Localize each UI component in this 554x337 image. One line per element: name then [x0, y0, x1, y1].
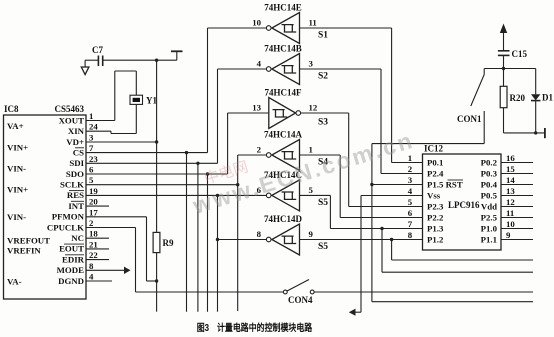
svg-text:VIN+: VIN+	[7, 142, 28, 152]
svg-text:VIN+: VIN+	[7, 184, 28, 194]
wire riser bottom to right	[372, 301, 533, 303]
junction SDO tap	[206, 172, 209, 175]
capacitor C7	[85, 59, 98, 61]
wire SDI pin23	[86, 162, 218, 164]
wire gate D output	[218, 239, 268, 241]
svg-text:74HC14D: 74HC14D	[264, 214, 303, 224]
svg-text:23: 23	[89, 154, 98, 164]
svg-text:10: 10	[506, 219, 515, 229]
svg-text:14: 14	[506, 175, 515, 185]
svg-text:4: 4	[89, 272, 94, 282]
svg-text:XIN: XIN	[68, 126, 85, 136]
svg-text:P2.5: P2.5	[481, 213, 498, 223]
svg-text:P1.2: P1.2	[427, 235, 444, 245]
svg-text:3: 3	[408, 175, 413, 185]
svg-text:19: 19	[89, 186, 98, 196]
IC IC12 LPC916 body	[423, 154, 502, 250]
svg-text:P1.5 RST: P1.5 RST	[427, 180, 463, 190]
svg-text:Vdd: Vdd	[481, 202, 497, 212]
svg-text:10: 10	[252, 18, 261, 28]
svg-text:74HC14B: 74HC14B	[264, 44, 302, 54]
svg-text:P0.3: P0.3	[481, 169, 498, 179]
wire S2 from IC12 P2.4	[300, 68, 382, 70]
svg-text:S1: S1	[318, 31, 328, 41]
svg-text:2: 2	[257, 145, 262, 155]
IC12 right pin stubs	[501, 162, 533, 164]
svg-text:9: 9	[309, 229, 314, 239]
wire gate A output riser	[237, 155, 239, 311]
wire top-right rail	[484, 68, 536, 70]
svg-text:D1: D1	[542, 93, 553, 103]
svg-text:8: 8	[408, 230, 413, 240]
wire SDO down-tap	[207, 174, 209, 312]
wire gate F input	[228, 112, 269, 114]
wire gate E output riser to CS	[207, 28, 209, 153]
svg-text:P0.5: P0.5	[481, 191, 498, 201]
wire SDI down-tap	[197, 163, 199, 311]
wire gate B output riser to SDI	[217, 69, 219, 163]
svg-text:Y1: Y1	[146, 96, 157, 106]
wire S5 from IC12 P1.3	[300, 194, 331, 196]
svg-text:CS5463: CS5463	[54, 104, 84, 114]
wire S4 from IC12 P2.2	[300, 154, 341, 156]
switch CON4	[283, 290, 287, 294]
junction RES / S5 down-tap	[216, 194, 219, 197]
wire RES pin19 to gate C output	[86, 194, 267, 196]
svg-text:74HC14E: 74HC14E	[264, 3, 302, 13]
svg-text:7: 7	[408, 219, 413, 229]
svg-text:15: 15	[506, 164, 515, 174]
svg-text:P2.2: P2.2	[427, 213, 444, 223]
svg-text:INT: INT	[68, 201, 84, 211]
wire SDO pin6	[86, 173, 228, 175]
junction CS tap	[185, 151, 188, 154]
svg-text:17: 17	[89, 207, 98, 217]
svg-text:5: 5	[408, 197, 413, 207]
wire RST to IC12 pin3	[372, 184, 423, 186]
svg-text:C7: C7	[92, 45, 103, 55]
svg-text:74HC14A: 74HC14A	[264, 130, 303, 140]
wire XIN pin24	[86, 130, 111, 132]
wire NC pin18 stub	[86, 237, 109, 239]
svg-text:CS: CS	[73, 147, 84, 157]
svg-text:12: 12	[506, 197, 515, 207]
svg-text:R9: R9	[163, 238, 174, 248]
svg-text:P2.3: P2.3	[427, 202, 444, 212]
svg-text:CON4: CON4	[288, 295, 313, 305]
wire CS pin7	[86, 152, 208, 154]
svg-text:VREFIN: VREFIN	[7, 245, 41, 255]
svg-text:P0.1: P0.1	[427, 158, 443, 168]
svg-text:CON1: CON1	[457, 114, 482, 124]
svg-text:S3: S3	[318, 118, 328, 128]
svg-text:VD+: VD+	[66, 137, 84, 147]
supply tap bar	[176, 51, 178, 60]
junction R9 bottom / PFMON	[155, 279, 158, 282]
wire crystal top	[115, 70, 137, 72]
svg-text:4: 4	[408, 186, 413, 196]
svg-text:3: 3	[89, 133, 94, 143]
wire CON4 line right	[314, 291, 533, 293]
svg-text:S5: S5	[318, 198, 328, 208]
IC IC8 CS5463 body	[4, 115, 87, 299]
svg-text:CPUCLK: CPUCLK	[47, 222, 84, 232]
wire VD+ pin3	[86, 141, 157, 143]
wire crystal right vertical	[135, 71, 137, 95]
svg-text:DGND: DGND	[58, 276, 84, 286]
wire gate E output	[208, 27, 268, 29]
terminal bar	[544, 128, 546, 138]
wire gate F input riser to SDO	[227, 113, 229, 174]
wire C15 to rail	[503, 55, 505, 86]
svg-text:SCLK: SCLK	[60, 180, 84, 190]
wire gate A output	[238, 154, 267, 156]
svg-text:7: 7	[89, 143, 94, 153]
wire SCLK pin5	[86, 184, 238, 186]
svg-text:SDO: SDO	[66, 169, 84, 179]
svg-text:VA-: VA-	[7, 276, 22, 286]
svg-text:16: 16	[506, 153, 515, 163]
junction VD+ / R9 rail	[155, 140, 158, 143]
wire below R9	[156, 253, 158, 312]
svg-text:VREFOUT: VREFOUT	[7, 235, 50, 245]
svg-text:20: 20	[89, 197, 98, 207]
svg-text:11: 11	[309, 18, 317, 28]
wire CON1 riser	[371, 144, 373, 302]
junction RST	[370, 183, 373, 186]
switch CON1	[483, 69, 485, 75]
wire P1.2 branch down-right	[391, 240, 393, 261]
svg-text:MODE: MODE	[57, 265, 84, 275]
svg-text:2: 2	[89, 218, 94, 228]
svg-text:4: 4	[257, 59, 262, 69]
capacitor C15	[498, 50, 510, 52]
wire EOUT pin21 stub	[86, 248, 109, 250]
svg-text:21: 21	[89, 239, 98, 249]
svg-text:1: 1	[408, 153, 412, 163]
svg-text:P0.4: P0.4	[481, 180, 498, 190]
diode D1	[535, 69, 537, 95]
svg-text:S5: S5	[318, 242, 328, 252]
svg-text:13: 13	[506, 186, 515, 196]
wire P1.3 branch down-right	[381, 229, 383, 273]
svg-text:EOUT: EOUT	[59, 244, 84, 254]
svg-text:IC8: IC8	[4, 104, 19, 114]
svg-text:XOUT: XOUT	[59, 115, 85, 125]
svg-text:VA+: VA+	[7, 121, 24, 131]
svg-text:1: 1	[309, 145, 313, 155]
wire INT pin20 stub	[86, 205, 109, 207]
inverter 74HC14F	[269, 98, 296, 129]
inverter 74HC14B	[272, 54, 300, 85]
svg-text:3: 3	[309, 59, 314, 69]
wire S3 to IC12 P2.3	[300, 112, 349, 114]
wire XOUT riser	[114, 71, 116, 121]
wire VD+ rail vertical	[156, 60, 158, 232]
svg-text:NC: NC	[71, 233, 84, 243]
wire XOUT pin1	[86, 120, 115, 122]
wire CON4 line left	[136, 291, 284, 293]
svg-text:LPC916: LPC916	[448, 200, 480, 210]
wire CPUCLK pin2	[86, 227, 136, 229]
resistor R9	[153, 232, 160, 252]
inverter 74HC14D	[272, 224, 300, 255]
junction SCLK / gate A output riser	[236, 183, 239, 186]
svg-text:C15: C15	[512, 49, 528, 59]
wire Vss pin4	[361, 195, 423, 197]
inverter 74HC14A	[272, 140, 300, 171]
svg-text:EDIR: EDIR	[62, 254, 85, 264]
svg-text:13: 13	[252, 103, 261, 113]
svg-text:9: 9	[506, 230, 511, 240]
wire C7 to supply tap	[103, 59, 177, 61]
wire S5 from IC12 P1.2 to gate D	[300, 239, 423, 241]
wire below R20	[503, 108, 505, 133]
svg-text:5: 5	[309, 185, 314, 195]
junction P1.3 branch	[380, 227, 383, 230]
junction gate D output on S5 tap	[216, 238, 219, 241]
wire gate B output	[218, 68, 268, 70]
junction D1 bottom	[534, 131, 537, 134]
svg-text:P1.0: P1.0	[481, 224, 498, 234]
svg-text:1: 1	[89, 111, 93, 121]
wire EDIR pin22 stub	[86, 259, 109, 261]
svg-text:PFMON: PFMON	[52, 212, 85, 222]
ground arrow	[84, 60, 86, 67]
svg-text:VIN-: VIN-	[7, 212, 26, 222]
wire PFMON pin17	[86, 216, 147, 218]
svg-text:图3 计量电路中的控制模块电路: 图3 计量电路中的控制模块电路	[197, 321, 313, 334]
junction P1.2 branch	[390, 238, 393, 241]
svg-text:RES: RES	[67, 190, 84, 200]
resistor R20	[500, 86, 507, 107]
svg-text:S2: S2	[318, 72, 328, 82]
svg-text:74HC14F: 74HC14F	[265, 88, 303, 98]
svg-text:8: 8	[257, 229, 262, 239]
svg-text:8: 8	[89, 261, 94, 271]
wire CON1 to RST riser	[372, 143, 484, 145]
wire CS down-tap	[186, 153, 188, 312]
svg-text:R20: R20	[510, 93, 526, 103]
junction on VD+ line	[155, 59, 158, 62]
svg-text:P2.4: P2.4	[427, 169, 444, 179]
wire MODE pin8 with arrow	[86, 269, 125, 271]
wire S5 down-tap	[217, 195, 219, 311]
svg-text:SDI: SDI	[69, 158, 84, 168]
svg-text:P0.2: P0.2	[481, 158, 498, 168]
svg-text:22: 22	[89, 250, 98, 260]
svg-text:11: 11	[506, 208, 514, 218]
crystal Y1	[130, 95, 143, 104]
svg-text:P1.3: P1.3	[427, 224, 444, 234]
svg-text:5: 5	[89, 175, 94, 185]
wire S1 from IC12 P0.1	[300, 27, 392, 29]
svg-text:2: 2	[408, 164, 413, 174]
svg-text:VIN-: VIN-	[7, 163, 26, 173]
svg-text:24: 24	[89, 122, 98, 132]
svg-text:12: 12	[309, 103, 318, 113]
supply arrow up	[500, 24, 507, 34]
svg-text:P1.1: P1.1	[481, 235, 497, 245]
inverter 74HC14E	[272, 13, 300, 44]
junction C15 rail	[502, 67, 505, 70]
svg-text:6: 6	[89, 165, 94, 175]
wire Vss arrow	[354, 311, 361, 313]
svg-text:IC12: IC12	[424, 144, 444, 154]
svg-text:6: 6	[408, 208, 413, 218]
wire crystal bottom	[111, 133, 136, 135]
inverter 74HC14C	[272, 180, 300, 211]
svg-text:Vss: Vss	[427, 191, 441, 201]
svg-text:18: 18	[89, 229, 98, 239]
wire DGND pin4 stub	[86, 280, 112, 282]
junction SDI tap	[196, 162, 199, 165]
